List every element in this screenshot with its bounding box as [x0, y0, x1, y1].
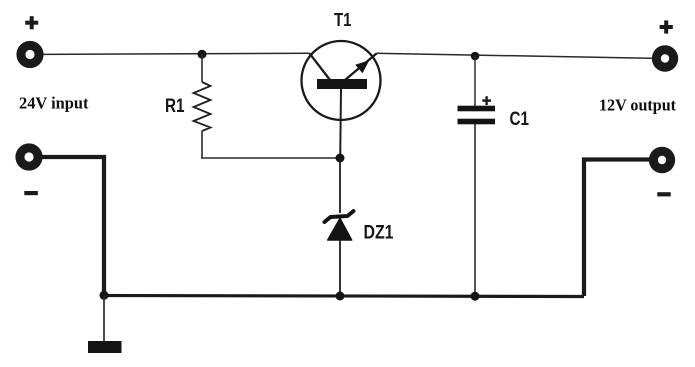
- svg-text:12V output: 12V output: [599, 96, 676, 115]
- svg-text:DZ1: DZ1: [364, 222, 394, 244]
- node: top rail / C1 junction: [471, 52, 480, 61]
- wire: ground stem: [103, 296, 105, 341]
- wire: DZ1 anode to ground rail: [339, 239, 341, 296]
- ground: [88, 341, 122, 353]
- node: base / R1 / DZ1 junction: [336, 154, 345, 163]
- wire: R1 to base node: [201, 157, 340, 159]
- transistor T1: [302, 41, 381, 120]
- minus sign (12V output negative): [657, 192, 670, 196]
- wire: C1 bottom lead: [474, 124, 476, 296]
- terminal: +12V output: [652, 45, 678, 71]
- node: ground rail / DZ1 junction: [336, 292, 345, 301]
- terminal: +24V input: [16, 41, 43, 68]
- wire: ground rail (bottom): [102, 296, 584, 297]
- terminal: -24V input: [15, 143, 42, 170]
- svg-text:24V input: 24V input: [19, 94, 89, 113]
- node: ground rail / C1 junction: [471, 292, 480, 301]
- wire: T1 base lead down: [339, 89, 342, 158]
- svg-text:R1: R1: [165, 95, 185, 117]
- terminal: -12V output: [649, 147, 675, 173]
- svg-text:T1: T1: [334, 10, 352, 30]
- wire: top rail left (input + to T1 collector): [44, 53, 310, 54]
- wire: R1 top lead: [201, 54, 203, 82]
- wire: C1 top lead: [474, 56, 476, 106]
- capacitor C1: [458, 96, 496, 124]
- wire: node to DZ1 cathode: [339, 158, 341, 213]
- wire: input minus to ground rail (thick): [42, 157, 104, 295]
- node: top rail / R1 junction: [198, 50, 207, 59]
- wire: R1 bottom lead: [201, 131, 203, 158]
- resistor R1: [194, 82, 211, 131]
- zener diode DZ1: [325, 211, 354, 240]
- svg-text:C1: C1: [510, 108, 530, 130]
- wire: top rail right (T1 emitter to output +): [377, 53, 652, 58]
- minus sign (24V input negative): [24, 191, 38, 195]
- plus sign (12V output positive): [660, 20, 673, 33]
- plus sign (24V input positive): [25, 16, 38, 29]
- node: ground rail / input minus junction: [100, 291, 109, 300]
- wire: ground rail to output minus (thick): [584, 160, 650, 297]
